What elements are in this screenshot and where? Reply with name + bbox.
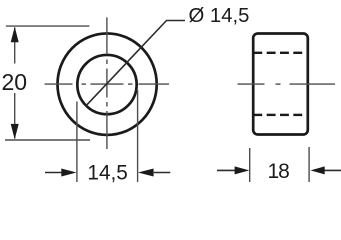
dimension 14,5: left extension line (76, 102, 78, 183)
dimension 14,5: left arrow tail (45, 172, 62, 174)
vertical centerline of front view (106, 17, 108, 149)
svg-text:Ø 14,5: Ø 14,5 (189, 5, 250, 27)
dimension 18: left arrow tail (217, 169, 235, 171)
side view body rectangle (253, 34, 308, 135)
dimension 20: bottom extension line (5, 139, 90, 141)
svg-text:14,5: 14,5 (87, 161, 127, 184)
dimension 20: down arrowhead (11, 124, 19, 139)
dimension 18: right arrow tail (325, 169, 341, 171)
dimension 18: right extension line (308, 147, 310, 182)
side view hidden line top (bore) (253, 52, 302, 54)
dimension 20: dimension line upper segment (14, 28, 16, 64)
dimension 14,5: right arrowhead (138, 169, 154, 177)
front view outer circle (58, 33, 157, 135)
side view hidden line bottom (bore) (253, 114, 302, 116)
svg-text:18: 18 (268, 160, 290, 183)
front view inner circle (bore) (77, 55, 136, 114)
dimension 14,5: left arrowhead (61, 169, 76, 177)
leader line for diameter label (86, 21, 185, 107)
svg-text:20: 20 (2, 69, 28, 95)
dimension 20: dimension line lower segment (14, 93, 16, 139)
dimension 18: left extension line (249, 148, 251, 182)
dimension 18: right arrowhead (311, 166, 325, 174)
dimension 14,5: right extension line (137, 90, 139, 182)
dimension 20: up arrowhead (11, 27, 19, 43)
horizontal centerline of front view (45, 83, 169, 85)
side view horizontal centerline (238, 83, 336, 85)
dimension 18: left arrowhead (235, 166, 250, 174)
dimension 14,5: right arrow tail (154, 172, 171, 174)
dimension 20: top extension line (6, 25, 90, 27)
